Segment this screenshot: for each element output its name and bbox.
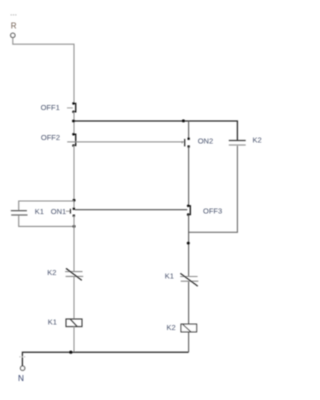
rail N bbox=[22, 352, 188, 366]
wire left column OFF2 to ON1 bbox=[73, 146, 75, 208]
contact OFF3 (NC pushbutton) bbox=[187, 205, 190, 216]
wire right column top (row1 to ON2) bbox=[188, 121, 190, 139]
terminal N bbox=[20, 366, 24, 370]
wire row2 (OFF2 to ON2 actuator) bbox=[67, 141, 184, 143]
wire R feed bbox=[13, 38, 74, 104]
contact OFF1 (NC pushbutton) bbox=[67, 102, 76, 113]
junction dot row1 left bbox=[72, 120, 75, 123]
node N selection marks bbox=[19, 356, 25, 357]
svg-text:OFF2: OFF2 bbox=[41, 133, 60, 142]
svg-text:ON1: ON1 bbox=[51, 207, 66, 216]
junction dot K1 branch bottom bbox=[73, 225, 76, 228]
contact ON1 (NO pushbutton) bbox=[66, 208, 75, 217]
wire row1 (OFF1 out to K2 branch) bbox=[74, 121, 237, 140]
svg-text:ON2: ON2 bbox=[198, 137, 213, 146]
svg-text:K2: K2 bbox=[167, 323, 176, 332]
wire left column K2 contact to K1 coil bbox=[73, 277, 75, 319]
coil K1 bbox=[66, 319, 82, 327]
svg-text:OFF1: OFF1 bbox=[41, 103, 60, 112]
junction dot row1 right bbox=[182, 119, 185, 122]
wire right column OFF3 to K1 contact bbox=[188, 215, 190, 277]
contact K1 (NC relay contact) bbox=[180, 273, 198, 286]
svg-text:OFF3: OFF3 bbox=[203, 207, 222, 216]
capacitor K1 bbox=[11, 211, 28, 215]
wire K2 branch (cap to right column) bbox=[189, 146, 237, 233]
wire K1 branch top bbox=[19, 201, 74, 210]
junction dot right column bbox=[187, 242, 190, 245]
junction dot K1 branch top bbox=[73, 199, 76, 202]
svg-text:R: R bbox=[11, 22, 17, 31]
contact ON2 (NO pushbutton) bbox=[182, 138, 190, 148]
wire K1 coil to rail N bbox=[73, 327, 75, 353]
coil K2 bbox=[181, 324, 197, 332]
wire right column K1 contact to K2 coil bbox=[188, 282, 190, 324]
contact OFF2 (NC pushbutton) bbox=[72, 133, 76, 147]
terminal R bbox=[11, 33, 15, 37]
svg-text:N: N bbox=[18, 374, 24, 383]
svg-text:K2: K2 bbox=[47, 268, 56, 277]
wire K1 branch bottom bbox=[19, 216, 74, 227]
svg-text:K1: K1 bbox=[35, 207, 44, 216]
contact K2 (NC relay contact) bbox=[65, 268, 83, 280]
wire K2 coil to rail N bbox=[188, 332, 190, 352]
wire row3 (ON1 to OFF3 actuator) bbox=[75, 209, 187, 211]
wire right column ON2 to OFF3 bbox=[188, 147, 190, 206]
svg-text:K1: K1 bbox=[165, 272, 174, 281]
capacitor K2 bbox=[229, 141, 246, 146]
node R selection marks bbox=[11, 14, 17, 15]
wire OFF1 to OFF2 bbox=[73, 112, 75, 134]
svg-text:K2: K2 bbox=[253, 136, 262, 145]
wire left column ON1 to K2 contact bbox=[73, 216, 75, 272]
svg-text:K1: K1 bbox=[48, 317, 57, 326]
junction dot rail N bbox=[69, 351, 72, 354]
